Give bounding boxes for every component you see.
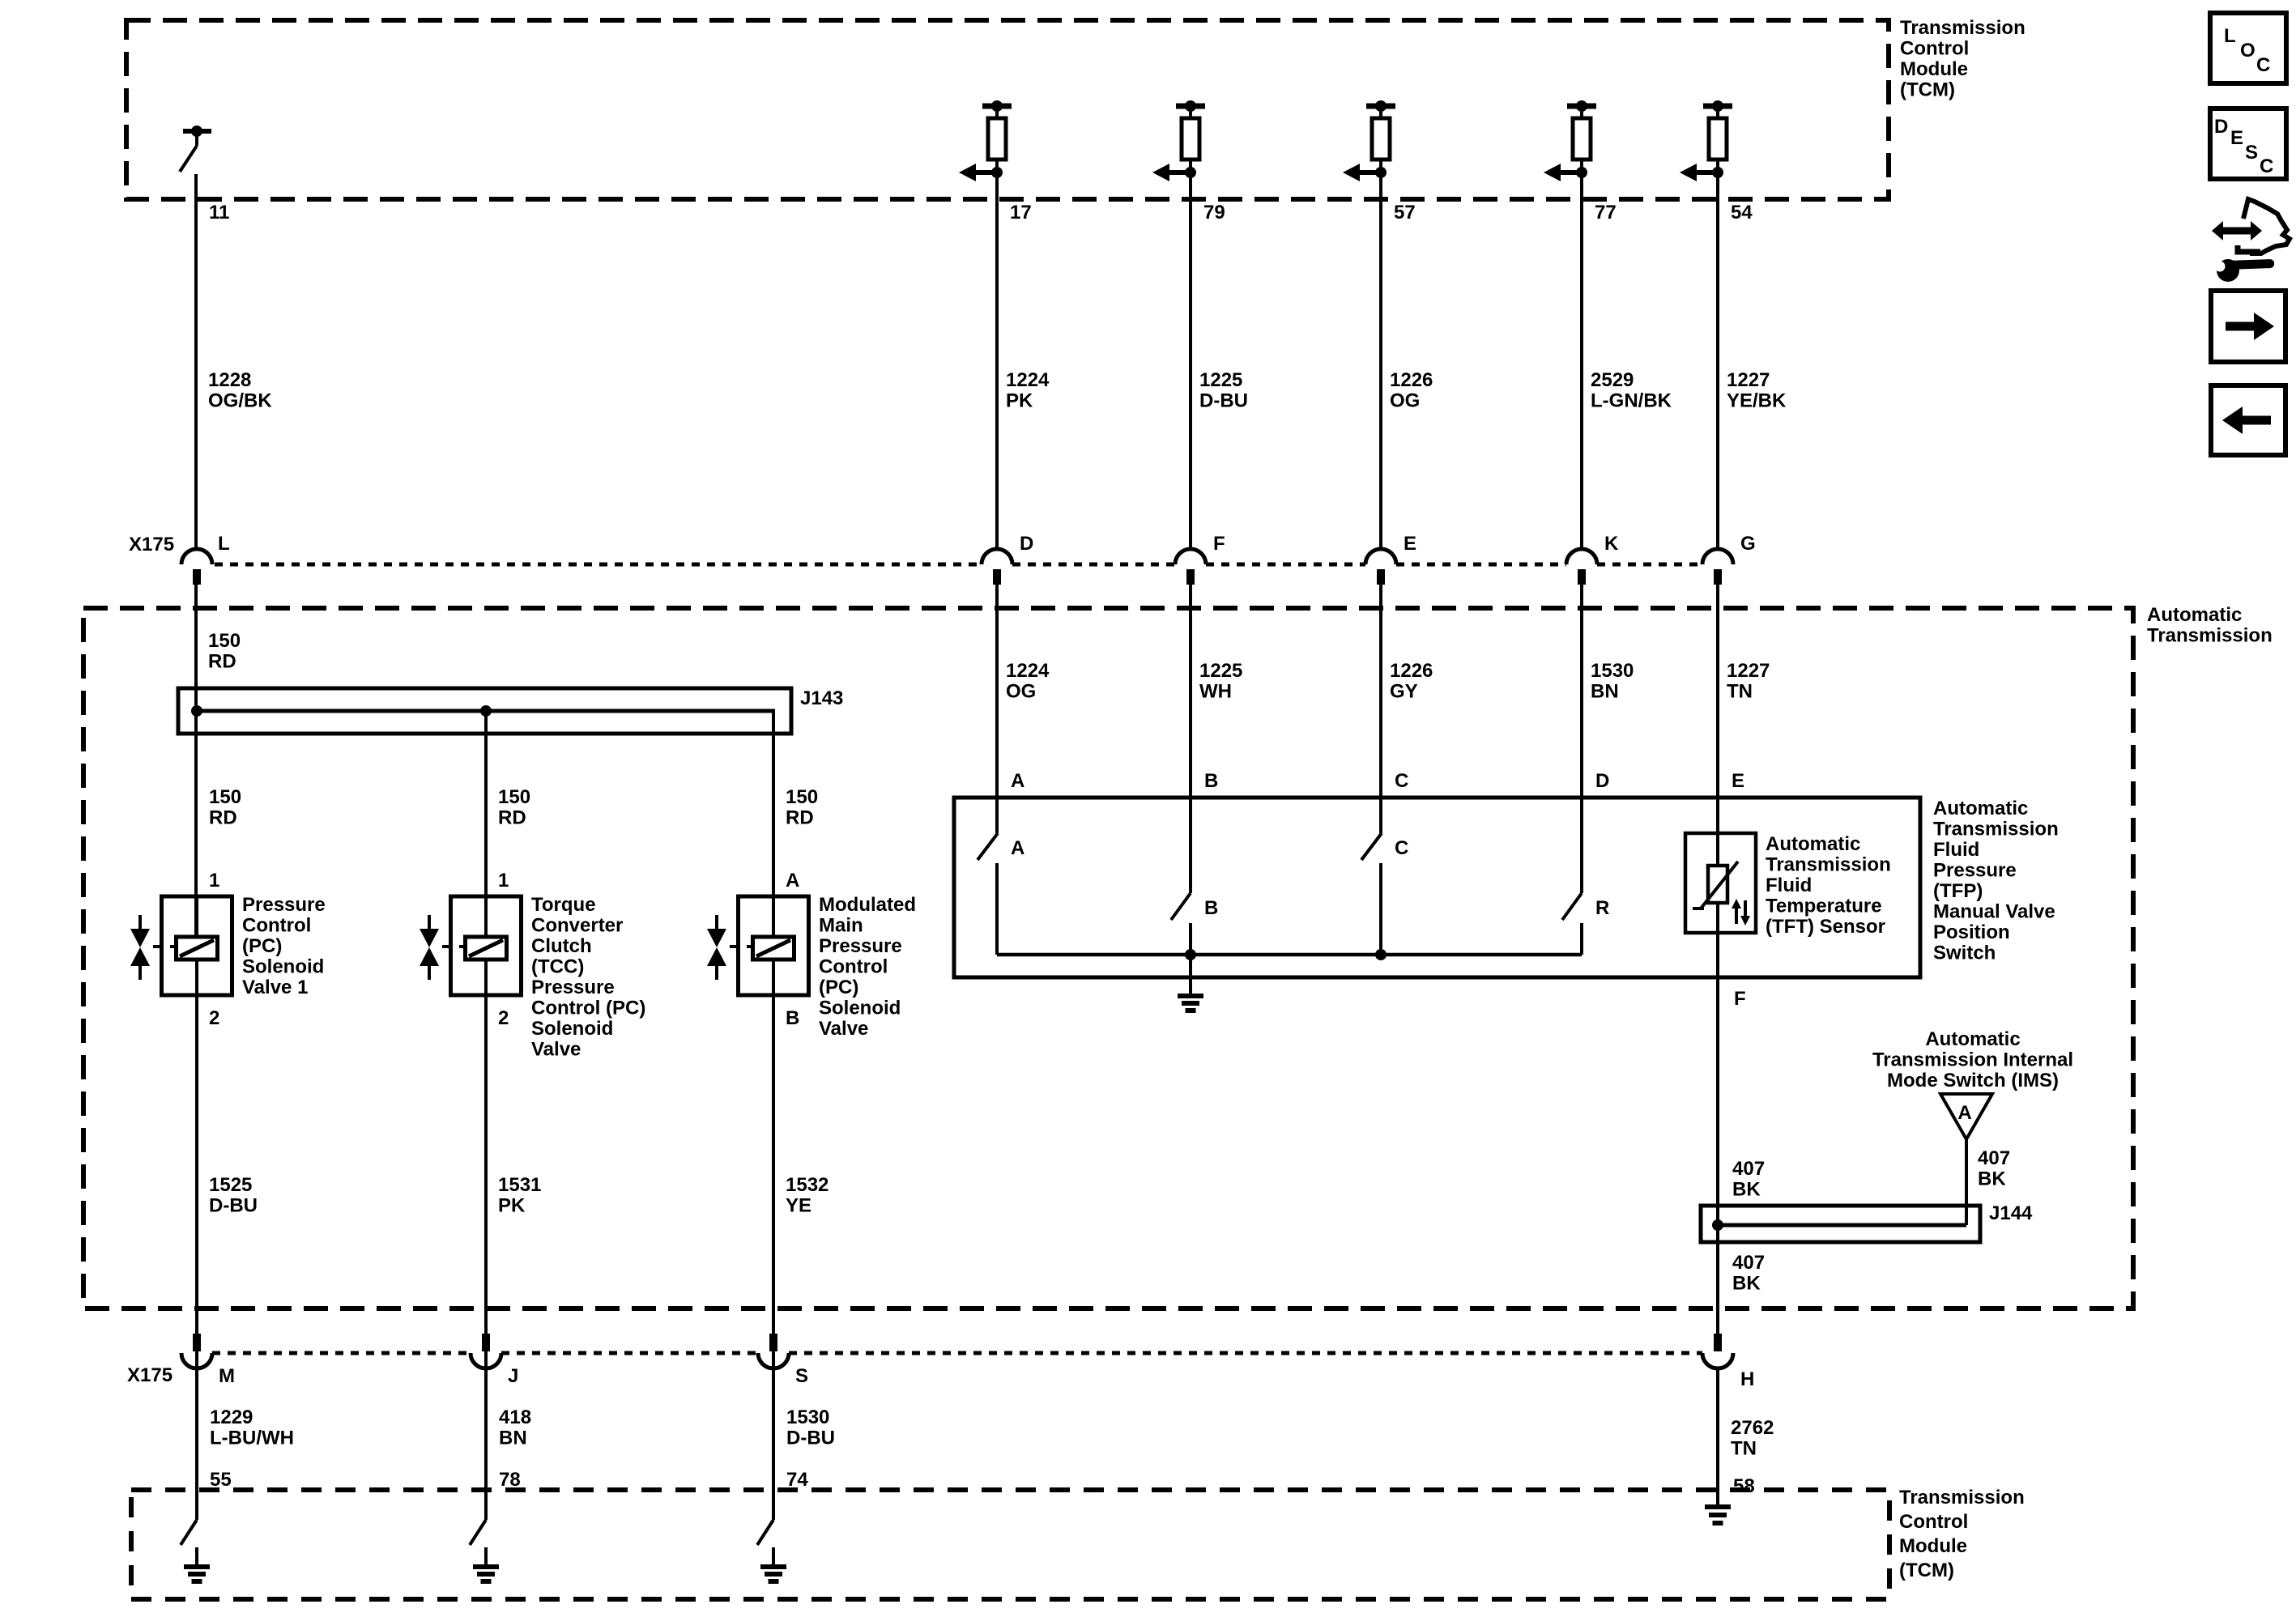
label: solenoid pin 2 — [209, 1007, 219, 1029]
solenoid valve: Modulated Main Pressure Control (PC) Solenoid Valve — [739, 896, 809, 995]
svg-text:L-BU/WH: L-BU/WH — [210, 1428, 294, 1449]
label: circuit 1225 D-BU — [1199, 369, 1248, 412]
arrow: signal direction into TCM, column K — [1544, 164, 1587, 181]
wire: TCM pin 54 to X175 pin G, circuit 1227 YE/BK — [1716, 172, 1719, 549]
label: circuit 1225 WH — [1199, 660, 1242, 703]
resistor: TCM driver load, column D — [982, 100, 1012, 172]
svg-text:Position: Position — [1933, 921, 2010, 943]
svg-text:Solenoid: Solenoid — [242, 956, 324, 978]
svg-text:2762: 2762 — [1731, 1417, 1774, 1439]
svg-text:Automatic: Automatic — [1925, 1028, 2020, 1050]
svg-text:RD: RD — [498, 807, 526, 829]
label: pin 77 — [1595, 202, 1617, 223]
svg-text:YE: YE — [786, 1195, 811, 1217]
svg-text:Control: Control — [1899, 1511, 1968, 1533]
svg-text:J143: J143 — [800, 687, 843, 709]
svg-text:1228: 1228 — [208, 369, 251, 391]
svg-text:2: 2 — [209, 1007, 219, 1029]
node: X175 pin H — [1702, 1334, 1754, 1390]
svg-text:Module: Module — [1899, 1535, 1967, 1557]
svg-text:Clutch: Clutch — [531, 935, 592, 957]
label: pin 79 — [1203, 202, 1225, 223]
svg-text:D: D — [1020, 533, 1033, 555]
svg-text:BK: BK — [1732, 1179, 1761, 1201]
svg-text:J: J — [508, 1365, 518, 1387]
svg-text:1530: 1530 — [786, 1406, 829, 1428]
label: circuit 1530 D-BU — [786, 1406, 835, 1449]
icon: next view arrow button — [2211, 291, 2285, 362]
wire: circuit 407 BK / 2762 TN sensor return, TFP pin F through J144 to X175 pin H — [1716, 977, 1719, 1334]
label: circuit 1531 PK — [498, 1174, 541, 1217]
label: TFP pin D — [1595, 770, 1609, 792]
label: TFP pin E — [1732, 770, 1744, 792]
connector line: X175 bottom, dotted — [212, 1351, 1702, 1355]
label: Automatic Transmission Internal Mode Switch (IMS) — [1872, 1028, 2073, 1091]
svg-text:BK: BK — [1732, 1273, 1761, 1295]
svg-text:OG: OG — [1006, 681, 1036, 703]
arrow: signal direction into TCM, column F — [1152, 164, 1196, 181]
svg-text:RD: RD — [208, 651, 236, 673]
wire: TCM pin 57 to X175 pin E, circuit 1226 OG — [1379, 172, 1382, 549]
wire: X175 pin H to TCM pin 58 ground — [1716, 1368, 1719, 1504]
module box: Transmission Control Module (TCM), bottom — [131, 1490, 1889, 1599]
node: X175 pin M — [181, 1334, 235, 1387]
svg-text:L: L — [2224, 25, 2236, 47]
svg-text:Transmission: Transmission — [2147, 625, 2273, 647]
switch: TFP contact R — [1562, 798, 1609, 955]
wire: circuit 1224 OG from X175 D to TFP switch pin A — [995, 585, 999, 798]
svg-text:O: O — [2240, 40, 2256, 62]
switch: TFP contact A — [978, 798, 1024, 955]
label: Transmission Control Module (TCM), top right — [1900, 17, 2026, 101]
svg-text:1532: 1532 — [786, 1174, 829, 1196]
svg-text:L: L — [218, 533, 230, 555]
label: TFP pin C — [1395, 770, 1408, 792]
wire: circuit 1226 GY from X175 E to TFP switch pin C — [1379, 585, 1382, 798]
switch: TCM low-side driver pin 78 — [470, 1520, 486, 1545]
resistor: TCM driver load, column G — [1703, 100, 1732, 172]
node: X175 pin F — [1175, 533, 1225, 585]
svg-text:Mode Switch (IMS): Mode Switch (IMS) — [1887, 1070, 2059, 1091]
label: Torque Converter Clutch (TCC) PC Solenoid Valve — [531, 894, 645, 1061]
svg-text:K: K — [1604, 533, 1619, 555]
svg-text:Transmission: Transmission — [1900, 17, 2026, 39]
svg-text:407: 407 — [1732, 1252, 1765, 1274]
svg-text:150: 150 — [786, 786, 818, 808]
svg-text:74: 74 — [786, 1469, 808, 1491]
label: circuit 407 BK (below J144) — [1732, 1252, 1765, 1295]
label: TFP pin B — [1204, 770, 1218, 792]
svg-text:Automatic: Automatic — [2147, 604, 2242, 626]
valve symbol beside solenoid 1 — [130, 915, 177, 980]
svg-text:RD: RD — [209, 807, 237, 829]
svg-text:A: A — [1957, 1102, 1971, 1124]
icon: DESC button — [2210, 109, 2286, 179]
svg-text:H: H — [1740, 1368, 1754, 1390]
svg-text:(TCM): (TCM) — [1899, 1560, 1954, 1581]
svg-text:79: 79 — [1203, 202, 1225, 223]
wire: circuit 1530 BN from X175 K to TFP switch pin D — [1580, 585, 1583, 798]
label: TCM pin 55 — [210, 1469, 232, 1491]
ground: TFP switch case ground below pin B — [1178, 996, 1203, 1011]
svg-text:Solenoid: Solenoid — [531, 1018, 613, 1040]
component box: Automatic Transmission Fluid Pressure (TFP) Manual Valve Position Switch — [954, 798, 1920, 977]
node: X175 pin S — [758, 1334, 808, 1387]
svg-text:PK: PK — [498, 1195, 526, 1217]
svg-text:WH: WH — [1199, 681, 1232, 703]
module box: Automatic Transmission — [83, 608, 2133, 1308]
svg-text:Transmission: Transmission — [1766, 854, 1891, 876]
switch: TCM low-side driver pin 74 — [757, 1520, 773, 1545]
icon: adjust/tools (double arrow, panel, wrench) — [2212, 199, 2290, 282]
svg-text:D: D — [1595, 770, 1609, 792]
label: solenoid pin 2 — [498, 1007, 509, 1029]
svg-text:2529: 2529 — [1591, 369, 1634, 391]
label: circuit 1224 PK — [1006, 369, 1050, 412]
svg-text:(TCC): (TCC) — [531, 956, 584, 978]
svg-text:55: 55 — [210, 1469, 232, 1491]
label: solenoid pin B — [786, 1007, 799, 1029]
svg-text:Automatic: Automatic — [1933, 798, 2028, 819]
svg-text:D-BU: D-BU — [209, 1195, 258, 1217]
label: TCM pin 74 — [786, 1469, 808, 1491]
ground: TCM internal ground, column M — [184, 1547, 210, 1581]
svg-text:B: B — [786, 1007, 799, 1029]
resistor: TCM driver load, column F — [1176, 100, 1205, 172]
icon: previous view arrow button — [2211, 385, 2285, 455]
svg-text:Transmission Internal: Transmission Internal — [1872, 1049, 2073, 1071]
svg-text:Transmission: Transmission — [1933, 819, 2059, 840]
svg-text:PK: PK — [1006, 390, 1033, 412]
switch: TCM low-side driver pin 55 — [181, 1520, 197, 1545]
label: pin 57 — [1394, 202, 1416, 223]
svg-text:1225: 1225 — [1199, 369, 1242, 391]
label: circuit 1228 OG/BK — [208, 369, 272, 412]
switch: TFP contact C — [1361, 798, 1408, 955]
node: X175 pin J — [471, 1334, 518, 1387]
ground: TCM internal ground, column J — [473, 1547, 499, 1581]
label: circuit 1226 OG — [1390, 369, 1433, 412]
svg-text:1531: 1531 — [498, 1174, 541, 1196]
svg-text:C: C — [2256, 54, 2270, 76]
svg-text:A: A — [1011, 837, 1024, 859]
solenoid valve: Pressure Control (PC) Solenoid Valve 1 — [162, 896, 232, 995]
solenoid valve: Torque Converter Clutch (TCC) PC Solenoid Valve — [451, 896, 522, 995]
svg-text:Valve 1: Valve 1 — [242, 977, 308, 998]
label: Automatic Transmission — [2147, 604, 2273, 647]
wire: J143 to TCC solenoid, 150 RD — [484, 711, 488, 937]
svg-text:17: 17 — [1010, 202, 1032, 223]
svg-text:(TFP): (TFP) — [1933, 880, 1983, 902]
svg-text:1: 1 — [498, 870, 509, 891]
valve symbol beside solenoid 3 — [707, 915, 753, 980]
label: TFP pin A — [1011, 770, 1024, 792]
svg-text:G: G — [1740, 533, 1756, 555]
svg-text:F: F — [1734, 988, 1746, 1010]
svg-text:B: B — [1204, 897, 1218, 919]
svg-text:Valve: Valve — [819, 1018, 868, 1040]
svg-text:Transmission: Transmission — [1899, 1487, 2025, 1508]
switch: TCM internal driver, pin 11 — [180, 126, 211, 172]
node: X175 pin E — [1365, 533, 1416, 585]
svg-text:Switch: Switch — [1933, 943, 1996, 964]
label: J144 — [1989, 1202, 2033, 1224]
svg-text:Control: Control — [819, 956, 888, 978]
svg-text:R: R — [1595, 897, 1609, 919]
svg-text:78: 78 — [499, 1469, 521, 1491]
label: circuit 1532 YE — [786, 1174, 829, 1217]
label: circuit 2762 TN — [1731, 1417, 1774, 1460]
svg-text:C: C — [1395, 770, 1408, 792]
svg-text:2: 2 — [498, 1007, 509, 1029]
svg-text:(PC): (PC) — [242, 935, 282, 957]
connector line: X175 top, dotted — [215, 563, 1702, 567]
node: X175 pin D — [982, 533, 1033, 585]
wire: circuit 1228 OG/BK from TCM pin 11 to connector X175 pin L — [194, 174, 198, 549]
wire: IMS ground lead 407 BK — [1965, 1139, 1968, 1225]
label: circuit 407 BK (IMS lead) — [1978, 1147, 2010, 1190]
svg-text:57: 57 — [1394, 202, 1416, 223]
svg-text:Pressure: Pressure — [531, 977, 615, 998]
label: circuit 2529 L-GN/BK — [1591, 369, 1672, 412]
valve symbol beside solenoid 2 — [420, 915, 466, 980]
svg-text:OG: OG — [1390, 390, 1420, 412]
label: Modulated Main Pressure Control (PC) Solenoid Valve — [819, 894, 916, 1040]
label: Transmission Control Module (TCM), bottom right — [1899, 1487, 2025, 1581]
label: TCM pin 78 — [499, 1469, 521, 1491]
label: Automatic Transmission Fluid Pressure (TFP) Manual Valve Position Switch — [1933, 798, 2059, 964]
label: circuit 1226 GY — [1390, 660, 1433, 703]
component: IMS connector triangle A — [1940, 1094, 1992, 1139]
label: Automatic Transmission Fluid Temperature (TFT) Sensor — [1766, 833, 1891, 938]
svg-text:Fluid: Fluid — [1766, 874, 1812, 896]
splice J143 — [178, 688, 791, 734]
svg-text:E: E — [2230, 127, 2243, 149]
svg-text:Pressure: Pressure — [242, 894, 326, 916]
label: circuit 407 BK (left of J144) — [1732, 1158, 1765, 1201]
label: TCM pin 58 — [1733, 1475, 1755, 1497]
svg-text:Fluid: Fluid — [1933, 839, 1979, 861]
svg-text:11: 11 — [209, 202, 229, 223]
svg-text:X175: X175 — [127, 1364, 173, 1386]
svg-text:S: S — [795, 1365, 808, 1387]
svg-text:Main: Main — [819, 915, 863, 937]
wire: TCM pin 79 to X175 pin F, circuit 1225 D-BU — [1189, 172, 1192, 549]
svg-text:Modulated: Modulated — [819, 894, 916, 916]
svg-text:150: 150 — [208, 630, 241, 652]
svg-text:1229: 1229 — [210, 1406, 253, 1428]
wire: TFP common bus — [997, 949, 1582, 960]
svg-text:S: S — [2245, 142, 2258, 164]
svg-text:D-BU: D-BU — [786, 1428, 835, 1449]
svg-text:GY: GY — [1390, 681, 1418, 703]
label: Pressure Control (PC) Solenoid Valve 1 — [242, 894, 326, 998]
resistor: TCM driver load, column K — [1567, 100, 1596, 172]
label: pin 54 — [1731, 202, 1753, 223]
svg-text:Manual Valve: Manual Valve — [1933, 901, 2055, 923]
wire: circuit 150 RD from X175 L into transmission — [194, 585, 198, 937]
svg-text:BK: BK — [1978, 1168, 2006, 1190]
svg-text:1226: 1226 — [1390, 369, 1433, 391]
label: circuit 1525 D-BU — [209, 1174, 258, 1217]
svg-text:BN: BN — [499, 1428, 527, 1449]
svg-text:418: 418 — [499, 1406, 531, 1428]
label: pin 11 — [209, 202, 229, 223]
wire: circuit 418 return, solenoid to X175 pin J — [484, 960, 488, 1520]
svg-text:(PC): (PC) — [819, 977, 858, 998]
wire: circuit 1229 return, solenoid to X175 pin M — [195, 960, 198, 1520]
svg-text:(TFT) Sensor: (TFT) Sensor — [1766, 916, 1885, 938]
svg-text:Converter: Converter — [531, 915, 623, 937]
label: solenoid pin 1 — [209, 870, 219, 891]
svg-text:Control (PC): Control (PC) — [531, 998, 645, 1019]
svg-text:M: M — [219, 1365, 235, 1387]
arrow: signal direction into TCM, column G — [1680, 164, 1723, 181]
svg-text:Control: Control — [242, 915, 311, 937]
ground: TCM internal ground, pin 58 — [1705, 1507, 1731, 1523]
svg-text:B: B — [1204, 770, 1218, 792]
svg-text:D: D — [2214, 116, 2228, 138]
label: circuit 1229 L-BU/WH — [210, 1406, 294, 1449]
label: circuit 150 RD (feed) — [208, 630, 241, 673]
wire: circuit 1225 WH from X175 F to TFP switch pin B — [1189, 585, 1192, 798]
svg-text:OG/BK: OG/BK — [208, 390, 272, 412]
svg-text:D-BU: D-BU — [1199, 390, 1248, 412]
svg-text:Solenoid: Solenoid — [819, 998, 901, 1019]
svg-text:Torque: Torque — [531, 894, 596, 916]
svg-text:C: C — [2260, 155, 2273, 177]
svg-text:1225: 1225 — [1199, 660, 1242, 682]
wire: TCM pin 17 to X175 pin D, circuit 1224 PK — [995, 172, 999, 549]
label: circuit 150 RD above solenoid 1 — [209, 786, 241, 829]
svg-text:F: F — [1213, 533, 1225, 555]
svg-text:1227: 1227 — [1727, 369, 1770, 391]
svg-text:Temperature: Temperature — [1766, 896, 1882, 917]
label: J143 — [800, 687, 843, 709]
connector X175, top pass-through (label) — [129, 534, 174, 555]
node: X175 pin K — [1566, 533, 1619, 585]
label: circuit 1227 TN — [1727, 660, 1770, 703]
svg-text:Automatic: Automatic — [1766, 833, 1860, 855]
svg-text:Module: Module — [1900, 58, 1968, 80]
label: TFP pin F — [1734, 988, 1746, 1010]
svg-text:1530: 1530 — [1591, 660, 1634, 682]
svg-text:Valve: Valve — [531, 1039, 581, 1061]
svg-text:TN: TN — [1727, 681, 1753, 703]
svg-text:407: 407 — [1732, 1158, 1765, 1180]
svg-text:407: 407 — [1978, 1147, 2010, 1169]
splice J144 — [1701, 1206, 1980, 1242]
svg-text:58: 58 — [1733, 1475, 1755, 1497]
wire: circuit 1530 return, solenoid to X175 pin S — [772, 960, 775, 1520]
svg-text:L-GN/BK: L-GN/BK — [1591, 390, 1672, 412]
svg-text:C: C — [1395, 837, 1408, 859]
svg-text:RD: RD — [786, 807, 814, 829]
ground: TCM internal ground, column S — [760, 1547, 786, 1581]
label: solenoid pin A — [786, 870, 799, 891]
label: pin 17 — [1010, 202, 1032, 223]
svg-text:1224: 1224 — [1006, 369, 1050, 391]
arrow: signal direction into TCM, column D — [959, 164, 1003, 181]
label: circuit 1227 YE/BK — [1727, 369, 1787, 412]
label: circuit 150 RD above solenoid 2 — [498, 786, 530, 829]
switch: TFP contact B — [1171, 798, 1218, 995]
svg-text:J144: J144 — [1989, 1202, 2033, 1224]
svg-text:Pressure: Pressure — [1933, 860, 2017, 882]
svg-text:TN: TN — [1731, 1438, 1757, 1460]
svg-text:BN: BN — [1591, 681, 1619, 703]
svg-text:YE/BK: YE/BK — [1727, 390, 1787, 412]
wire: J143 to Mod Main PC solenoid, 150 RD — [772, 711, 775, 937]
svg-text:54: 54 — [1731, 202, 1753, 223]
svg-text:1224: 1224 — [1006, 660, 1050, 682]
icon: LOC button — [2210, 13, 2286, 83]
connector X175, bottom pass-through (label) — [127, 1364, 173, 1386]
node: X175 pin L — [181, 533, 230, 585]
svg-text:E: E — [1732, 770, 1744, 792]
label: circuit 1530 BN — [1591, 660, 1634, 703]
svg-text:77: 77 — [1595, 202, 1617, 223]
svg-text:A: A — [786, 870, 799, 891]
svg-text:A: A — [1011, 770, 1024, 792]
svg-text:150: 150 — [498, 786, 530, 808]
svg-text:1: 1 — [209, 870, 219, 891]
wire: TCM pin 77 to X175 pin K, circuit 2529 L-GN/BK — [1580, 172, 1583, 549]
svg-text:X175: X175 — [129, 534, 174, 555]
svg-text:150: 150 — [209, 786, 241, 808]
svg-text:(TCM): (TCM) — [1900, 79, 1955, 101]
label: circuit 1224 OG — [1006, 660, 1050, 703]
resistor: TCM driver load, column E — [1366, 100, 1395, 172]
label: circuit 418 BN — [499, 1406, 531, 1449]
svg-text:1525: 1525 — [209, 1174, 252, 1196]
svg-text:1226: 1226 — [1390, 660, 1433, 682]
label: solenoid pin 1 — [498, 870, 509, 891]
sensor: Automatic Transmission Fluid Temperature (TFT) thermistor — [1685, 798, 1756, 977]
label: circuit 150 RD above solenoid 3 — [786, 786, 818, 829]
wire: circuit 1227 TN from X175 G to TFP switch pin E — [1716, 585, 1719, 798]
svg-text:1227: 1227 — [1727, 660, 1770, 682]
module box: Transmission Control Module (TCM), top — [126, 20, 1889, 199]
svg-text:Control: Control — [1900, 38, 1969, 60]
svg-text:Pressure: Pressure — [819, 935, 902, 957]
arrow: signal direction into TCM, column E — [1343, 164, 1387, 181]
svg-text:E: E — [1404, 533, 1416, 555]
node: X175 pin G — [1702, 533, 1756, 585]
